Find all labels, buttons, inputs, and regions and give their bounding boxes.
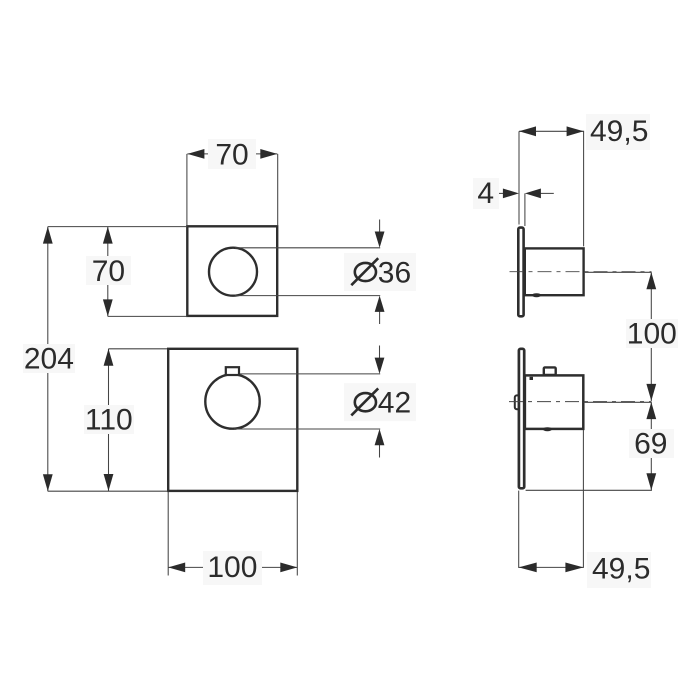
dimension 49,5 top: extension lines [519, 131, 584, 247]
dimension 70 (top width) line and arrows [187, 138, 277, 171]
svg-text:49,5: 49,5 [592, 553, 650, 586]
svg-text:69: 69 [634, 428, 667, 461]
dimension 100 (bottom width) extension lines [168, 492, 297, 576]
svg-text:70: 70 [92, 255, 125, 288]
side view top: center line (dash-dot) [510, 271, 652, 274]
svg-text:4: 4 [477, 177, 494, 210]
svg-text:110: 110 [85, 404, 133, 437]
side view bottom: small lens detail on body bottom [543, 427, 552, 431]
label D36 [344, 253, 416, 291]
front view: knob index tab [226, 367, 239, 375]
front view: top cover plate square 70x70 [187, 226, 277, 316]
svg-text:36: 36 [378, 256, 411, 289]
dimension 70 left: bottom extension line [108, 315, 188, 317]
dimension 100 (center to center) line and arrows [626, 272, 678, 401]
svg-text:100: 100 [207, 551, 257, 584]
dimension 110: top extension line [109, 348, 168, 350]
side view top: valve body (D36 knob side) [525, 248, 584, 295]
dimension 49,5 bottom: extension lines [519, 430, 584, 568]
dimension D36 leader lines (tangent to circle) [235, 248, 380, 296]
svg-text:70: 70 [215, 138, 248, 171]
dimension 49,5 top: line and arrows [519, 114, 650, 150]
front view: top knob circle D36 [209, 248, 257, 296]
dimension D42 arrows [375, 346, 385, 458]
dimension 69 line and arrows [629, 402, 674, 490]
dimension 110 line and arrows [84, 349, 134, 491]
dimension 70 (top width) extension lines [187, 154, 278, 225]
svg-text:204: 204 [24, 342, 74, 375]
dimension 49,5 bottom: line and arrows [519, 552, 651, 588]
svg-text:100: 100 [627, 318, 677, 351]
dimension 204 line and arrows [23, 227, 75, 492]
svg-text:49,5: 49,5 [590, 115, 648, 148]
side view bottom: valve body (D42 knob side) [525, 375, 583, 429]
dimension 100 (bottom width) line and arrows [168, 551, 297, 585]
dimension 204 (overall height) extension lines [48, 227, 188, 492]
front view: bottom knob circle D42 [205, 374, 259, 428]
dimension 70 (top square height) line and arrows [86, 227, 131, 317]
dimension D42 leader lines [234, 374, 380, 429]
side view bottom: supply stub on left of plate [515, 395, 521, 409]
dimension D36 arrows [375, 220, 385, 325]
side view bottom: wall plate (thin) [519, 349, 524, 489]
side view top: wall plate (thin) [518, 228, 523, 317]
dimension 69: extension line at plate bottom [526, 489, 652, 491]
side view top: small lens detail on body bottom [532, 293, 541, 297]
side view bottom: index tab on body top [544, 367, 556, 375]
label D42 [344, 383, 416, 421]
side view bottom: center line (dash-dot) [509, 401, 652, 404]
front view: bottom mounting plate square 100x110 [168, 349, 297, 491]
dimension 4 (plate thickness) [473, 177, 554, 226]
svg-text:42: 42 [378, 387, 411, 420]
side view bottom: small square detail top-left of body [530, 377, 534, 380]
